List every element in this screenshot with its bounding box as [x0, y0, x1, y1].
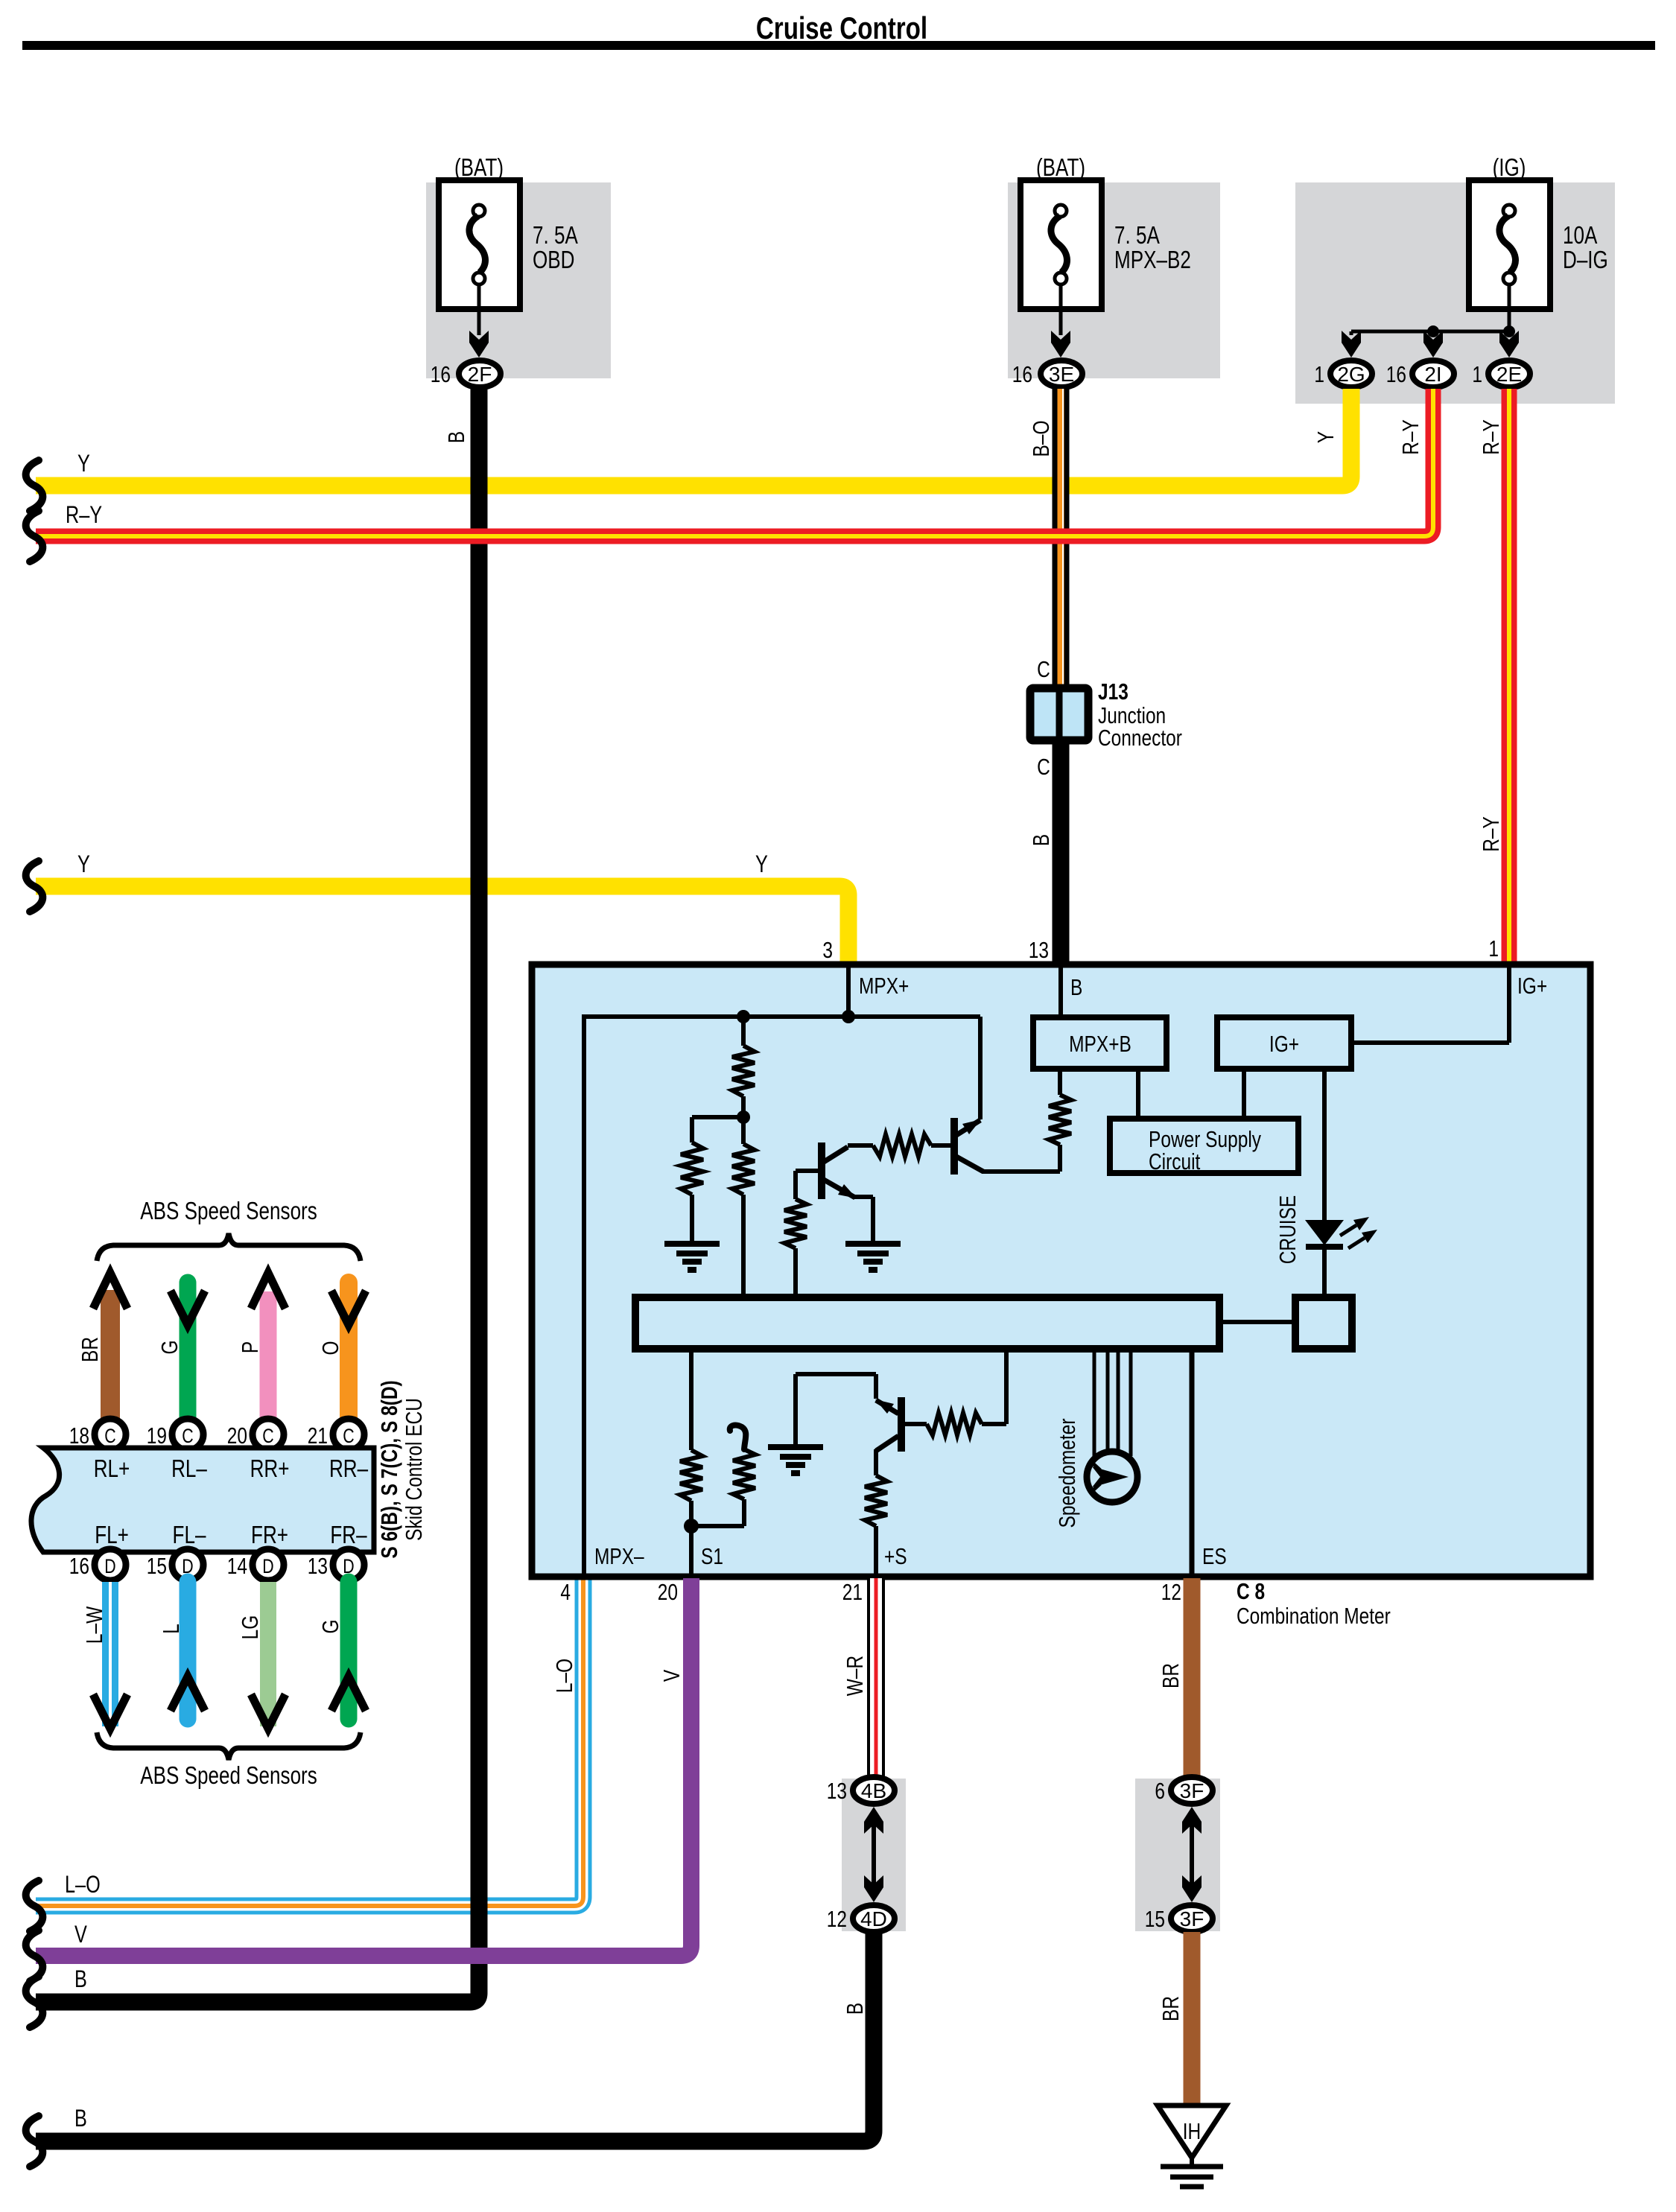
svg-text:RL–: RL– [171, 1455, 207, 1483]
svg-text:S 6(B), S 7(C), S 8(D): S 6(B), S 7(C), S 8(D) [376, 1380, 401, 1558]
svg-text:C: C [343, 1426, 354, 1448]
svg-text:3F: 3F [1180, 1779, 1204, 1802]
svg-text:B: B [443, 431, 469, 443]
wire fuse F1 to connector 2F [477, 285, 481, 335]
junction dot R1 top [737, 1010, 750, 1023]
svg-text:OBD: OBD [533, 247, 574, 274]
ground G1 [664, 1241, 720, 1247]
svg-text:18: 18 [69, 1423, 89, 1448]
svg-text:L–O: L–O [65, 1872, 101, 1898]
svg-text:16: 16 [431, 361, 451, 387]
speedometer [1093, 1349, 1096, 1456]
connector 2F pin 16 [459, 360, 501, 387]
connector circle C pin 19 [172, 1419, 203, 1450]
svg-text:LG: LG [237, 1615, 262, 1640]
svg-text:6: 6 [1155, 1778, 1165, 1803]
ABS sensor wire O arrow down [340, 1283, 358, 1421]
svg-text:B: B [1070, 974, 1082, 999]
wire Y yellow lower labels [26, 861, 43, 912]
svg-text:2I: 2I [1424, 363, 1441, 386]
svg-text:B–O: B–O [1028, 421, 1053, 457]
junction dot MPX+ [842, 1010, 855, 1023]
wire B black from J13 to combination meter pin 13 [1053, 740, 1070, 964]
svg-text:L–W: L–W [81, 1606, 107, 1644]
resistor R5 (Q1 base pulldown to bus bar) [784, 1199, 807, 1248]
svg-text:MPX–: MPX– [594, 1543, 644, 1569]
svg-text:20: 20 [658, 1579, 678, 1604]
connector circle D pin 16 [95, 1549, 126, 1580]
svg-text:21: 21 [842, 1579, 863, 1604]
svg-text:IG+: IG+ [1517, 973, 1547, 998]
connector 4B pin 13 [853, 1777, 895, 1804]
fuse F2 7.5A MPX-B2 [1020, 180, 1102, 309]
svg-text:D–IG: D–IG [1563, 247, 1608, 274]
transistor Q3 collector to +S [876, 1436, 898, 1451]
svg-text:RR+: RR+ [250, 1455, 290, 1483]
resistor R1 [741, 1017, 746, 1046]
svg-text:3F: 3F [1180, 1907, 1204, 1930]
svg-text:ABS Speed Sensors: ABS Speed Sensors [140, 1198, 317, 1225]
svg-text:13: 13 [308, 1553, 328, 1578]
svg-text:19: 19 [147, 1423, 167, 1448]
svg-text:C: C [1037, 754, 1050, 779]
svg-text:D: D [104, 1556, 115, 1578]
svg-text:+S: +S [884, 1543, 907, 1569]
wire R-Y red-yellow from 2E down to combination meter pin 1 [1502, 389, 1517, 964]
svg-text:1: 1 [1472, 361, 1482, 387]
inter-harness arrow 3F-3F [1190, 1811, 1194, 1898]
svg-text:R–Y: R–Y [1397, 419, 1423, 455]
svg-text:3: 3 [822, 937, 833, 962]
brace top [97, 1233, 361, 1261]
connector 3F pin 6 [1171, 1777, 1213, 1804]
connector circle C pin 18 [95, 1419, 126, 1450]
connector 4D pin 12 [853, 1905, 895, 1932]
svg-text:16: 16 [1012, 361, 1032, 387]
resistor R9 Q3 base to bus bar [904, 1422, 927, 1426]
gray panel fuse MPX-B2 [1008, 182, 1220, 378]
transistor Q1 base resistor R4 feed [796, 1169, 819, 1173]
svg-text:W–R: W–R [842, 1656, 867, 1696]
wire MPX+ entry stub [846, 967, 851, 1017]
LED CRUISE indicator [1305, 1220, 1344, 1245]
svg-text:BR: BR [1158, 1663, 1183, 1688]
resistor R3 (below junction, to bus bar) [732, 1144, 755, 1195]
gray panel fuse D-IG [1295, 182, 1615, 404]
small box right of bus bar [1295, 1297, 1352, 1349]
svg-text:2F: 2F [468, 363, 492, 386]
ABS sensor wire G2 arrow up [340, 1582, 358, 1719]
wire internal bus A horizontal [584, 1014, 980, 1019]
svg-text:FL+: FL+ [95, 1522, 129, 1549]
fuse F3 10A D-IG [1469, 180, 1550, 309]
svg-text:Y: Y [77, 451, 90, 477]
gray panel connector 4B/4D [842, 1779, 906, 1931]
wire MPX+B to power supply circuit [1136, 1069, 1140, 1119]
connector circle D pin 13 [333, 1549, 364, 1580]
connector circle D pin 14 [253, 1549, 284, 1580]
combination meter C8 box [532, 964, 1590, 1577]
svg-text:2G: 2G [1337, 363, 1365, 386]
svg-text:FR–: FR– [330, 1522, 367, 1549]
junction dot at 2E branch [1503, 325, 1515, 337]
connector 2E pin 1 [1488, 360, 1530, 387]
svg-text:MPX+B: MPX+B [1069, 1031, 1131, 1056]
svg-text:FL–: FL– [173, 1522, 206, 1549]
svg-text:B: B [74, 2105, 87, 2132]
svg-text:C: C [1037, 656, 1050, 681]
svg-text:R–Y: R–Y [1478, 419, 1503, 455]
svg-text:O: O [317, 1341, 343, 1355]
wire fuse F2 to connector 3E [1059, 285, 1063, 335]
svg-text:BR: BR [77, 1337, 102, 1362]
svg-text:B: B [842, 2003, 867, 2015]
svg-text:4B: 4B [861, 1779, 886, 1802]
wire IG+ box to power supply circuit [1242, 1069, 1246, 1119]
svg-text:10A: 10A [1563, 222, 1598, 250]
svg-text:BR: BR [1158, 1996, 1183, 2021]
wire IG+ box to pin 1 entry [1351, 1040, 1509, 1045]
fuse F1 7.5A OBD [439, 180, 520, 309]
resistor R6 under MPX+B [1058, 1069, 1062, 1095]
svg-text:IG+: IG+ [1269, 1031, 1299, 1056]
svg-text:R–Y: R–Y [66, 502, 102, 529]
svg-text:FR+: FR+ [251, 1522, 288, 1549]
wire L-O blue-orange from MPX- pin 4 to left edge [36, 1578, 583, 1906]
svg-text:CRUISE: CRUISE [1275, 1195, 1300, 1264]
svg-text:S1: S1 [701, 1543, 723, 1569]
wire W-R white-red from +S pin 21 to 4B [867, 1578, 885, 1777]
wire junction to R8 variable [691, 1524, 744, 1528]
svg-text:15: 15 [1145, 1906, 1165, 1931]
connector 2I pin 16 [1412, 360, 1454, 387]
svg-text:J13: J13 [1098, 678, 1129, 704]
svg-text:C 8: C 8 [1237, 1578, 1265, 1604]
svg-text:Circuit: Circuit [1149, 1148, 1201, 1174]
connector circle C pin 21 [333, 1419, 364, 1450]
svg-text:Combination Meter: Combination Meter [1237, 1603, 1391, 1628]
svg-text:1: 1 [1314, 361, 1324, 387]
svg-text:Speedometer: Speedometer [1054, 1419, 1079, 1528]
ABS sensor wire L arrow up [180, 1582, 197, 1719]
svg-text:B: B [74, 1966, 87, 1993]
svg-text:L: L [158, 1624, 183, 1634]
connector circle C pin 20 [253, 1419, 284, 1450]
svg-text:7. 5A: 7. 5A [1114, 222, 1160, 250]
gray panel fuse OBD [426, 182, 611, 378]
connector 3F pin 15 [1171, 1905, 1213, 1932]
wire Y yellow lower (first leg under B) [36, 886, 848, 964]
svg-text:4: 4 [560, 1579, 571, 1604]
resistor R7 S1 branch from bus bar [689, 1349, 693, 1450]
svg-text:ABS Speed Sensors: ABS Speed Sensors [140, 1762, 317, 1790]
wire BR brown from 3F to ground IH [1184, 1932, 1201, 2105]
svg-text:7. 5A: 7. 5A [533, 222, 578, 250]
svg-text:20: 20 [227, 1423, 247, 1448]
connector 2G pin 1 [1330, 360, 1372, 387]
svg-text:G: G [156, 1340, 182, 1354]
ABS sensor wire P arrow up [260, 1291, 277, 1421]
resistor R2 [681, 1142, 703, 1195]
wire Y yellow from 2G to left edge [36, 389, 1351, 486]
junction dot below R1 [737, 1110, 750, 1124]
ground G3 [768, 1444, 823, 1450]
ABS sensor wire LG arrow down [260, 1582, 276, 1726]
title underline bar [22, 41, 1655, 50]
resistor R4 horizontal Q1-Q2 [873, 1134, 931, 1157]
svg-text:12: 12 [1161, 1579, 1181, 1604]
svg-text:C: C [262, 1426, 273, 1448]
box MPX+B [1058, 967, 1063, 1017]
svg-text:Y: Y [77, 851, 90, 878]
svg-text:R–Y: R–Y [1478, 816, 1503, 852]
junction connector J13 [1030, 688, 1088, 740]
svg-text:ES: ES [1202, 1543, 1227, 1569]
svg-text:IH: IH [1183, 2118, 1201, 2143]
svg-text:Y: Y [1312, 431, 1338, 444]
bus bar rectangle [635, 1297, 1219, 1349]
svg-text:1: 1 [1488, 935, 1499, 961]
skid control ECU box [31, 1448, 374, 1552]
wire B black from 2F down to left edge bottom [36, 389, 479, 2002]
svg-text:V: V [74, 1922, 88, 1948]
svg-text:(IG): (IG) [1493, 154, 1526, 182]
svg-text:13: 13 [1029, 937, 1049, 962]
svg-text:(BAT): (BAT) [454, 154, 504, 182]
svg-text:D: D [262, 1556, 273, 1578]
svg-text:Cruise Control: Cruise Control [756, 11, 927, 46]
svg-text:MPX+: MPX+ [859, 973, 909, 998]
svg-text:21: 21 [308, 1423, 328, 1448]
wire V violet from S1 pin 20 to left edge [36, 1578, 691, 1956]
svg-text:Y: Y [755, 851, 768, 878]
resistor R8 with hook [733, 1449, 755, 1499]
wire junction to R2 [692, 1115, 743, 1119]
svg-text:G: G [317, 1619, 343, 1633]
connector 3E pin 16 [1041, 360, 1082, 387]
ABS sensor wire G arrow down [180, 1283, 197, 1421]
svg-text:Skid Control ECU: Skid Control ECU [401, 1398, 426, 1541]
svg-text:C: C [182, 1426, 193, 1448]
ground IH triangle [1158, 2105, 1226, 2158]
wire IG+ box to cruise LED [1322, 1069, 1327, 1221]
wire MPX- internal vertical [582, 1014, 586, 1574]
svg-text:2E: 2E [1496, 363, 1522, 386]
junction dot at 2I branch [1427, 325, 1439, 337]
svg-text:16: 16 [69, 1553, 89, 1578]
svg-text:3E: 3E [1049, 363, 1074, 386]
box Power Supply Circuit [1110, 1119, 1298, 1173]
wire BR brown from ES pin 12 to 3F [1184, 1578, 1201, 1777]
inter-harness arrow 4B-4D [872, 1811, 876, 1898]
svg-text:P: P [237, 1341, 262, 1353]
box IG+ [1217, 1017, 1351, 1069]
svg-text:12: 12 [827, 1906, 847, 1931]
wire fuse F3 distribution manifold [1508, 285, 1511, 331]
transistor Q3 [898, 1397, 905, 1452]
ABS sensor wire L-W arrow down [102, 1582, 118, 1726]
svg-text:13: 13 [827, 1778, 847, 1803]
svg-text:RR–: RR– [329, 1455, 369, 1483]
svg-text:L–O: L–O [551, 1659, 577, 1693]
svg-text:MPX–B2: MPX–B2 [1114, 247, 1191, 274]
wire ES from bus bar to pin 12 [1190, 1349, 1195, 1574]
brace bottom [97, 1732, 361, 1760]
wire B black from 4D to left edge [36, 1932, 874, 2141]
svg-text:C: C [104, 1426, 115, 1448]
svg-text:Connector: Connector [1098, 725, 1182, 750]
svg-text:(BAT): (BAT) [1036, 154, 1085, 182]
wire R-Y red-yellow from 2I to left edge [36, 389, 1433, 536]
connector circle D pin 15 [172, 1549, 203, 1580]
transistor Q2 [950, 1118, 958, 1175]
svg-text:B: B [1028, 834, 1053, 846]
transistor Q1 [818, 1142, 825, 1199]
junction dot S1 [684, 1519, 699, 1534]
svg-text:4D: 4D [860, 1907, 887, 1930]
svg-text:16: 16 [1386, 361, 1406, 387]
svg-text:RL+: RL+ [94, 1455, 130, 1483]
ABS sensor wire BR arrow up [101, 1290, 120, 1421]
gray panel connector 3F/3F [1135, 1779, 1220, 1931]
svg-text:V: V [658, 1670, 684, 1682]
svg-text:14: 14 [227, 1553, 247, 1578]
ground G2 [845, 1241, 901, 1247]
wire bus bar to small box [1219, 1320, 1295, 1324]
wire B-O black-orange from 3E to J13 [1053, 389, 1070, 688]
svg-text:15: 15 [147, 1553, 167, 1578]
